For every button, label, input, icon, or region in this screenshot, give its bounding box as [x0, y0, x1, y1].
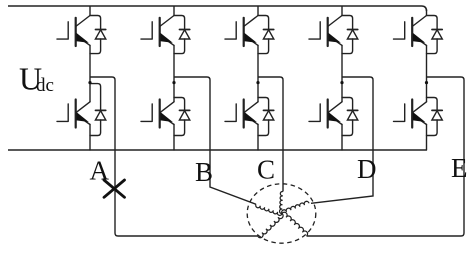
svg-text:D: D [357, 154, 377, 184]
svg-text:C: C [257, 155, 275, 185]
svg-text:E: E [451, 153, 468, 183]
svg-text:B: B [195, 157, 213, 187]
svg-text:A: A [90, 156, 110, 186]
svg-text:dc: dc [36, 75, 54, 96]
